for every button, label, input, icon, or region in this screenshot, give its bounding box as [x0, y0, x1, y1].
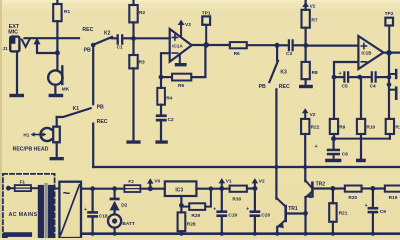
component stub to right edge (lower)	[389, 89, 395, 91]
connector J1	[10, 37, 19, 52]
wire R22 down to rail	[304, 134, 306, 167]
regulator IC3	[165, 181, 197, 196]
svg-text:K3: K3	[280, 69, 287, 75]
wire MK to ground	[54, 85, 56, 94]
wire R5 to output	[191, 45, 205, 77]
jack tip contact V arrow	[22, 40, 30, 47]
svg-text:R22: R22	[311, 125, 320, 131]
svg-text:R5: R5	[178, 83, 184, 89]
svg-text:C9: C9	[380, 209, 386, 215]
svg-text:TP2: TP2	[385, 11, 394, 17]
wire K2-PB down to K1	[92, 45, 94, 104]
resistor R3	[132, 38, 134, 55]
svg-text:PB: PB	[84, 48, 91, 54]
wire inverting input to feedback	[161, 53, 170, 77]
diode D2	[113, 189, 115, 198]
node A (C1/R2/R3)	[131, 36, 136, 41]
svg-text:F2: F2	[128, 179, 134, 184]
node (TR2 emitter)	[303, 211, 308, 216]
switch K1 arm	[57, 108, 91, 117]
svg-text:R30: R30	[232, 196, 241, 202]
microphone MK	[48, 70, 62, 84]
V1 supply arrow	[219, 186, 224, 191]
svg-text:BATT: BATT	[122, 221, 135, 227]
resistor R4	[160, 79, 162, 88]
resistor R30	[230, 186, 247, 192]
svg-text:V2: V2	[259, 178, 265, 184]
wire arm to C1	[112, 37, 117, 39]
svg-text:V2: V2	[310, 112, 316, 118]
wire K1 REC contact down to rail	[92, 124, 94, 167]
wire bottom rail	[82, 232, 400, 235]
resistor R28	[180, 196, 182, 212]
wire R3 to ground	[132, 68, 134, 140]
capacitor stub to right edge (upper)	[389, 73, 395, 75]
wire output to right edge	[383, 51, 400, 53]
wire bridge output	[81, 188, 124, 190]
wire head to ground	[56, 142, 58, 157]
resistor R19	[375, 187, 385, 189]
resistor R21	[332, 189, 334, 204]
node (mic junction)	[55, 50, 60, 55]
V2 supply arrow (bottom)	[252, 186, 257, 191]
node (IC1B output)	[386, 50, 392, 56]
node (base/R20/R21)	[330, 186, 335, 191]
wire link row y138.6	[334, 138, 390, 140]
wire right column vertical	[388, 53, 390, 119]
resistor R6	[230, 42, 247, 48]
wire inverting input feedback	[334, 62, 358, 77]
svg-text:V2: V2	[185, 22, 191, 28]
wire TR2 base	[314, 187, 331, 189]
svg-text:MIC: MIC	[8, 29, 18, 35]
V0 supply arrow	[148, 186, 153, 191]
wire K3 REC contact down to TR1 collector	[275, 89, 277, 198]
SECTIONS INSERTED BELOW	[3, 0, 170, 167]
resistor R20	[335, 187, 345, 189]
tape head H1	[56, 117, 58, 127]
V2 supply arrow (R7 top)	[302, 2, 309, 7]
switch K3	[276, 48, 278, 61]
svg-text:C5: C5	[342, 84, 348, 90]
bridge rectifier	[59, 182, 81, 238]
ground (MK)	[49, 94, 64, 97]
svg-text:F1: F1	[20, 179, 26, 184]
svg-text:+: +	[213, 206, 216, 212]
wire bias node to IC1B	[306, 44, 359, 46]
wire R1 to mic	[56, 21, 58, 70]
wire C1 to node	[123, 37, 133, 39]
ground bar (C6)	[325, 159, 341, 163]
svg-text:AC MAINS: AC MAINS	[9, 212, 38, 218]
ground (C2)	[155, 140, 167, 143]
wire R1 column	[56, 0, 58, 4]
resistor R22	[301, 119, 309, 134]
svg-text:+: +	[246, 206, 249, 212]
svg-text:R6: R6	[234, 51, 240, 57]
capacitor C4	[362, 76, 370, 78]
svg-text:C3: C3	[286, 51, 292, 57]
node (K2 PB contact)	[91, 43, 96, 48]
wire C2 to ground	[160, 122, 162, 141]
V2 supply arrow (R22)	[302, 108, 309, 113]
svg-text:R1: R1	[64, 9, 70, 15]
capacitor C20	[254, 189, 256, 211]
wire node to IC1A	[134, 37, 170, 39]
resistor R11	[386, 119, 394, 134]
svg-text:REC: REC	[279, 84, 290, 90]
node (R29 top)	[209, 186, 214, 191]
svg-text:R29: R29	[191, 213, 200, 219]
wire mid rail	[93, 166, 400, 168]
svg-text:V2: V2	[310, 3, 316, 9]
svg-text:R4: R4	[166, 96, 172, 102]
wire mains second lead (bottom, clipped)	[5, 235, 29, 238]
node (R9/C6)	[331, 136, 336, 141]
node (IC1A output)	[203, 42, 209, 48]
ground (R8)	[299, 85, 313, 88]
resistor R2	[132, 0, 134, 5]
svg-text:J1: J1	[3, 46, 9, 51]
capacitor C6	[333, 139, 335, 149]
resistor R9	[333, 79, 335, 119]
transformer T1	[38, 185, 44, 238]
resistor R7	[305, 0, 307, 10]
svg-text:+: +	[365, 203, 368, 209]
svg-text:C1: C1	[117, 45, 123, 51]
svg-text:REC: REC	[82, 27, 93, 33]
svg-text:C20: C20	[261, 213, 270, 219]
svg-text:TR1: TR1	[288, 206, 298, 212]
V2 supply arrow (IC1A)	[180, 24, 182, 36]
resistor R8	[305, 45, 307, 62]
svg-text:PB: PB	[97, 105, 104, 111]
resistor R10	[360, 77, 362, 119]
svg-text:PB: PB	[259, 84, 266, 90]
node (R7/R8 bias)	[303, 43, 308, 48]
node (R20/C9)	[370, 186, 375, 191]
wire secondary to bridge	[54, 188, 59, 190]
svg-text:R10: R10	[366, 125, 375, 131]
wire input y38	[25, 37, 80, 39]
svg-text:R28: R28	[187, 222, 196, 228]
dashed enclosure AC MAINS	[3, 174, 55, 240]
resistor R5	[161, 76, 172, 78]
svg-text:+: +	[84, 207, 87, 213]
node (R6/C3/K3)	[275, 43, 280, 48]
node (R4/R5 junction)	[159, 75, 164, 80]
resistor R1	[53, 4, 61, 21]
battery BATT	[113, 210, 115, 214]
ground (head)	[50, 157, 64, 160]
node (C4/right column)	[387, 75, 392, 80]
svg-text:C18: C18	[99, 213, 108, 219]
svg-text:R19: R19	[389, 195, 398, 201]
ground (J1)	[9, 94, 24, 97]
op-amp IC1A	[170, 29, 192, 62]
svg-text:R8: R8	[312, 70, 318, 76]
svg-text:H1: H1	[23, 133, 29, 138]
svg-text:+: +	[339, 71, 342, 77]
svg-text:IC1A: IC1A	[172, 43, 183, 48]
svg-text:C6: C6	[342, 151, 348, 157]
svg-text:C4: C4	[370, 84, 376, 90]
wire J1 sleeve down	[16, 52, 18, 94]
jack break-contact up arrow	[34, 37, 41, 44]
node (C5 left)	[332, 75, 337, 80]
arrow to head	[34, 134, 43, 136]
svg-text:K2: K2	[104, 31, 111, 37]
mains input arrow	[6, 186, 11, 191]
svg-text:R9: R9	[339, 125, 345, 131]
svg-text:V1: V1	[226, 178, 232, 184]
capacitor C2	[160, 105, 162, 115]
svg-text:MK: MK	[62, 87, 70, 93]
transistor TR1	[276, 198, 285, 206]
capacitor C3	[279, 44, 287, 46]
capacitor C19	[221, 189, 223, 211]
node (C5/C4 junction)	[357, 75, 362, 80]
svg-text:REC/PB HEAD: REC/PB HEAD	[13, 147, 49, 153]
svg-text:R2: R2	[139, 10, 145, 16]
svg-text:D2: D2	[121, 202, 127, 208]
svg-text:R3: R3	[139, 59, 145, 65]
node (rail joins)	[91, 232, 375, 236]
svg-text:TR2: TR2	[316, 182, 326, 188]
node (C18)	[90, 186, 95, 191]
svg-text:IC3: IC3	[175, 187, 183, 193]
svg-text:+: +	[315, 144, 318, 150]
svg-text:REC: REC	[97, 119, 108, 125]
op-amp IC1B	[358, 36, 383, 69]
svg-text:C2: C2	[168, 117, 174, 123]
node (stub row)	[387, 82, 392, 87]
node (D2/BATT)	[112, 186, 117, 191]
svg-text:C19: C19	[228, 213, 237, 219]
svg-text:R21: R21	[339, 210, 348, 216]
switch K2 arm	[93, 37, 112, 45]
resistor R29	[184, 206, 189, 208]
svg-text:~: ~	[63, 186, 71, 201]
svg-text:R7: R7	[311, 18, 317, 24]
ground (R3)	[126, 140, 140, 143]
capacitor C1	[118, 35, 123, 43]
ground (IC1A)	[179, 54, 181, 63]
svg-text:R20: R20	[348, 195, 357, 201]
wire output	[192, 44, 230, 46]
node (R22 column / rail)	[303, 165, 307, 169]
node (REC line / rail)	[274, 165, 278, 169]
transistor TR2	[311, 182, 314, 198]
svg-text:R11: R11	[395, 125, 400, 131]
ground bar (R10)	[356, 159, 366, 163]
capacitor C5	[334, 76, 343, 78]
capacitor C18	[91, 189, 93, 211]
svg-text:IC1B: IC1B	[361, 51, 371, 56]
svg-text:V0: V0	[154, 179, 160, 185]
capacitor C9	[372, 189, 374, 207]
